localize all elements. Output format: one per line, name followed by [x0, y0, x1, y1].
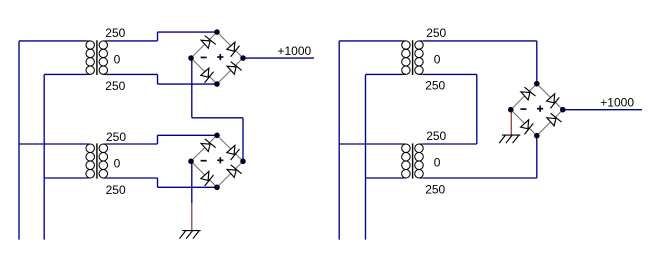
- wire to B1 top node: [158, 31, 218, 33]
- diode B3 bottom-right: [546, 112, 561, 127]
- svg-text:0: 0: [434, 155, 441, 169]
- diode B1 top-right: [225, 41, 240, 56]
- wire T2 primary top: [19, 143, 87, 145]
- diode B2 left-bottom: [199, 170, 214, 185]
- svg-text:250: 250: [105, 79, 125, 93]
- wire T4 secondary top: [423, 143, 477, 145]
- svg-text:0: 0: [114, 52, 121, 66]
- wire to B2 bottom node: [158, 186, 218, 188]
- bridge B3 node right: [560, 107, 566, 113]
- wire T4 primary top: [339, 143, 402, 145]
- transformer T3 core: [412, 40, 414, 75]
- diode B2 top-right: [225, 144, 240, 159]
- wire jog up to bridge B1 top: [157, 32, 159, 41]
- transformer T4 primary winding: [403, 143, 406, 145]
- bridge B2 node bottom: [214, 185, 220, 191]
- wire to B2 top node: [158, 134, 218, 136]
- wire T2 secondary bottom: [107, 177, 158, 179]
- transformer T3 secondary winding: [419, 40, 423, 42]
- wire T1 secondary bottom: [107, 73, 158, 75]
- wire jog up to B2 top: [157, 135, 159, 144]
- wire T1 primary top: [19, 40, 87, 42]
- wire T3 primary top: [339, 40, 402, 42]
- bridge B1 minus mark: [201, 56, 207, 58]
- wire T2 secondary top: [107, 143, 158, 145]
- transformer T2 core: [96, 143, 98, 178]
- bridge B1 node right: [240, 55, 246, 61]
- wire up from T4 to B3 bottom node: [536, 136, 538, 178]
- bridge B2 plus mark: [217, 159, 223, 161]
- wire ground lead 1 (maroon): [191, 203, 193, 230]
- wire jog down to bridge B1 bottom: [157, 74, 159, 84]
- bridge B3 node left: [508, 107, 514, 113]
- transformer T1 primary winding: [87, 40, 90, 42]
- ground symbol GND1: [182, 230, 200, 232]
- transformer T1 secondary winding: [103, 40, 107, 42]
- bridge B1 node bottom: [214, 81, 220, 87]
- svg-text:250: 250: [426, 26, 446, 40]
- bridge B2 node left: [188, 159, 194, 165]
- svg-text:+1000: +1000: [278, 44, 312, 58]
- diode B2 bottom-right: [226, 164, 241, 179]
- transformer T4 secondary winding: [419, 143, 423, 145]
- bridge B3 node top: [534, 81, 540, 87]
- wire jog down to B2 bottom: [157, 178, 159, 187]
- svg-text:250: 250: [105, 26, 125, 40]
- wire T3 primary bottom: [366, 73, 403, 75]
- bridge B1 node left: [188, 55, 194, 61]
- wire ground lead 2 (maroon): [510, 110, 512, 135]
- diode B1 left-bottom: [199, 67, 214, 82]
- svg-text:250: 250: [106, 183, 126, 197]
- transformer T1 core: [96, 40, 98, 75]
- svg-text:0: 0: [434, 52, 441, 66]
- wire T2 primary bottom: [44, 177, 87, 179]
- diode B1 bottom-right: [226, 61, 241, 76]
- bridge B2 minus mark: [201, 160, 207, 162]
- svg-text:250: 250: [425, 79, 445, 93]
- transformer T3 primary winding: [403, 40, 406, 42]
- wire B2 minus node down: [191, 161, 193, 203]
- wire B1 minus to B2 plus horizontal: [192, 117, 243, 119]
- svg-text:0: 0: [114, 156, 121, 170]
- svg-text:250: 250: [425, 182, 445, 196]
- wire B1 minus down: [191, 58, 193, 118]
- bridge B1 plus mark: [217, 56, 223, 58]
- bridge B3 plus mark: [537, 108, 543, 110]
- bridge rectifier B2 diamond: [191, 135, 243, 187]
- diode B3 top-right: [545, 93, 560, 108]
- bridge rectifier B1 diamond: [191, 32, 243, 84]
- wire rail v2 (AC input): [43, 74, 45, 239]
- wire T3 secondary bottom: [423, 73, 477, 75]
- wire down to B2 right node: [242, 118, 244, 162]
- wire T1 secondary top: [107, 40, 158, 42]
- diode B3 left-top: [520, 86, 535, 101]
- transformer T2 secondary winding: [103, 143, 107, 145]
- wire T4 secondary bottom: [423, 177, 537, 179]
- bridge rectifier B3 diamond: [511, 84, 563, 136]
- wire T1 primary bottom: [44, 73, 87, 75]
- wire T3 secondary top: [423, 40, 537, 42]
- wire T4 primary bottom: [366, 177, 403, 179]
- svg-text:+1000: +1000: [600, 95, 634, 109]
- wire down to B3 top node: [536, 41, 538, 84]
- diode B3 left-bottom: [519, 119, 534, 134]
- wire series link T3-T4: [476, 74, 478, 144]
- svg-text:250: 250: [426, 129, 446, 143]
- bridge B3 minus mark: [520, 108, 526, 110]
- transformer T4 core: [412, 143, 414, 178]
- bridge B2 node right: [240, 159, 246, 165]
- diode B1 left-top: [200, 35, 215, 50]
- ground symbol GND2: [502, 134, 520, 136]
- bridge B2 node top: [214, 133, 220, 139]
- wire rail v3 (AC input): [338, 41, 340, 240]
- bridge B1 node top: [214, 29, 220, 35]
- bridge B3 node bottom: [534, 133, 540, 139]
- transformer T2 primary winding: [87, 143, 90, 145]
- diode B2 left-top: [200, 138, 215, 153]
- wire rail v1 (AC input): [18, 41, 20, 240]
- wire to B1 bottom node: [158, 83, 218, 85]
- wire +1000 output left: [243, 57, 314, 59]
- wire rail v4 (AC input): [365, 74, 367, 239]
- svg-text:250: 250: [106, 130, 126, 144]
- wire +1000 output right: [563, 109, 642, 111]
